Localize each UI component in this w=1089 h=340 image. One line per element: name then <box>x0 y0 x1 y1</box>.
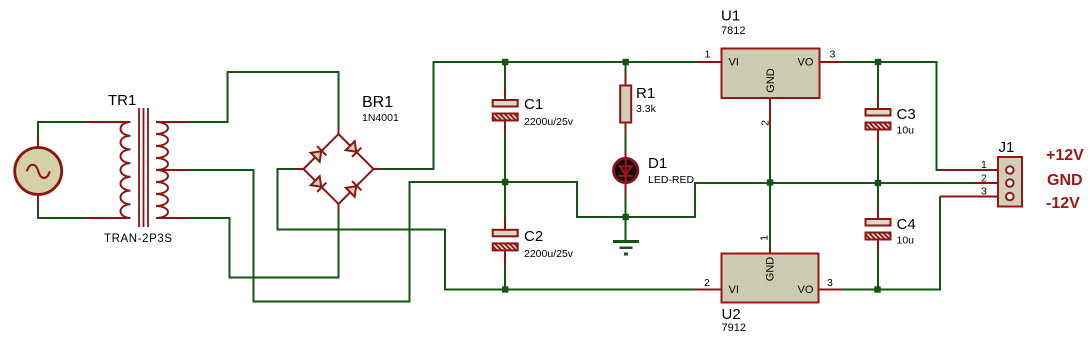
svg-text:GND: GND <box>1047 172 1083 189</box>
AC source <box>15 148 62 195</box>
svg-text:C1: C1 <box>524 96 543 113</box>
wire: U1 GND to rail (green) <box>769 128 771 183</box>
wire: transformer primary top pin (red) <box>86 121 131 123</box>
svg-text:VO: VO <box>798 284 814 296</box>
wire: U1 VO pin 3 (red) <box>820 61 843 63</box>
wire: source bottom pin (red) <box>37 195 39 207</box>
resistor R1 <box>620 62 656 151</box>
svg-text:1N4001: 1N4001 <box>362 112 399 124</box>
wire: secondary bottom to bridge bottom (green) <box>189 212 339 278</box>
wire: transformer primary bottom pin (red) <box>86 217 131 219</box>
svg-text:1: 1 <box>981 159 987 171</box>
wire: bridge top pin (red) <box>338 127 340 135</box>
svg-text:-12V: -12V <box>1046 195 1080 212</box>
capacitor C2 <box>493 182 574 290</box>
svg-text:GND: GND <box>765 68 777 93</box>
svg-text:TR1: TR1 <box>108 92 136 109</box>
wire: bridge left pin (red) <box>296 168 305 170</box>
svg-text:1: 1 <box>705 49 711 61</box>
wire: U1 VI pin 1 (red) <box>696 61 722 63</box>
svg-text:TRAN-2P3S: TRAN-2P3S <box>104 233 173 245</box>
wire: J1 pin2 (red) <box>974 182 1006 184</box>
svg-text:C2: C2 <box>524 228 543 245</box>
wire: GND net center tap route (green) <box>189 170 974 302</box>
transformer TR1 <box>104 92 173 245</box>
capacitor C1 <box>493 62 574 182</box>
LED D1 <box>614 151 695 218</box>
svg-text:2: 2 <box>760 120 772 126</box>
wire: U2 VO pin 3 (red) <box>819 289 843 291</box>
svg-text:2: 2 <box>704 277 710 289</box>
svg-text:VI: VI <box>729 57 739 69</box>
svg-text:C4: C4 <box>897 216 916 233</box>
svg-text:3: 3 <box>827 277 833 289</box>
regulator U1 7812 <box>705 8 836 126</box>
ground <box>613 217 639 254</box>
svg-text:10u: 10u <box>897 235 915 247</box>
svg-text:J1: J1 <box>999 139 1015 156</box>
svg-text:3: 3 <box>830 49 836 61</box>
svg-text:VO: VO <box>798 57 814 69</box>
svg-text:10u: 10u <box>897 125 915 137</box>
wire: secondary bottom pin (red) <box>156 217 189 219</box>
wire: +12V net U1 VO to J1 pin1 (green) <box>843 62 940 170</box>
svg-text:U2: U2 <box>722 306 741 323</box>
wire: U2 VI pin 2 (red) <box>696 289 722 291</box>
svg-text:2: 2 <box>981 173 987 185</box>
wire: secondary top to bridge top (green) <box>189 72 339 127</box>
wire: J1 pin1 (red) <box>940 169 1007 171</box>
svg-text:GND: GND <box>765 257 777 282</box>
svg-text:1: 1 <box>759 235 771 241</box>
svg-text:2200u/25v: 2200u/25v <box>524 248 574 260</box>
connector J1 <box>981 139 1022 207</box>
capacitor C3 <box>866 62 916 183</box>
wire: +V net bridge right to U1 VI (green) <box>382 62 697 169</box>
wire: secondary center tap pin (red) <box>156 169 189 171</box>
svg-text:R1: R1 <box>636 85 655 102</box>
svg-text:+12V: +12V <box>1046 147 1084 164</box>
svg-text:3: 3 <box>981 186 987 198</box>
wire: U2 GND to rail (green) <box>769 183 771 247</box>
svg-text:C3: C3 <box>897 106 916 123</box>
svg-text:D1: D1 <box>648 155 667 172</box>
wire: U2 GND pin 1 (red) <box>769 247 771 254</box>
capacitor C4 <box>866 183 916 290</box>
wire: bridge right pin (red) <box>373 168 382 170</box>
svg-text:BR1: BR1 <box>362 94 393 111</box>
svg-text:LED-RED: LED-RED <box>648 174 695 186</box>
junction dots <box>502 59 881 293</box>
wire: source bottom to transformer (green) <box>38 207 85 219</box>
wire: source top pin (red) <box>37 135 39 148</box>
wire: source top to transformer (green) <box>38 122 85 135</box>
wire: U1 GND pin 2 (red) <box>769 98 771 128</box>
wire: -V net bridge left to U2 VI (green) <box>277 169 696 290</box>
wire: -12V net U2 VO to J1 pin3 (green) <box>842 197 940 290</box>
wire: bridge bottom pin (red) <box>338 203 340 212</box>
svg-text:7912: 7912 <box>722 322 746 334</box>
svg-text:2200u/25v: 2200u/25v <box>524 116 574 128</box>
bridge rectifier BR1 <box>304 94 399 204</box>
wire: J1 pin3 (red) <box>940 196 1006 198</box>
svg-text:U1: U1 <box>721 8 740 25</box>
wire: secondary top pin (red) <box>156 121 189 123</box>
svg-text:7812: 7812 <box>721 25 745 37</box>
svg-text:VI: VI <box>729 284 739 296</box>
regulator U2 7912 <box>704 235 833 334</box>
svg-text:3.3k: 3.3k <box>636 103 657 115</box>
